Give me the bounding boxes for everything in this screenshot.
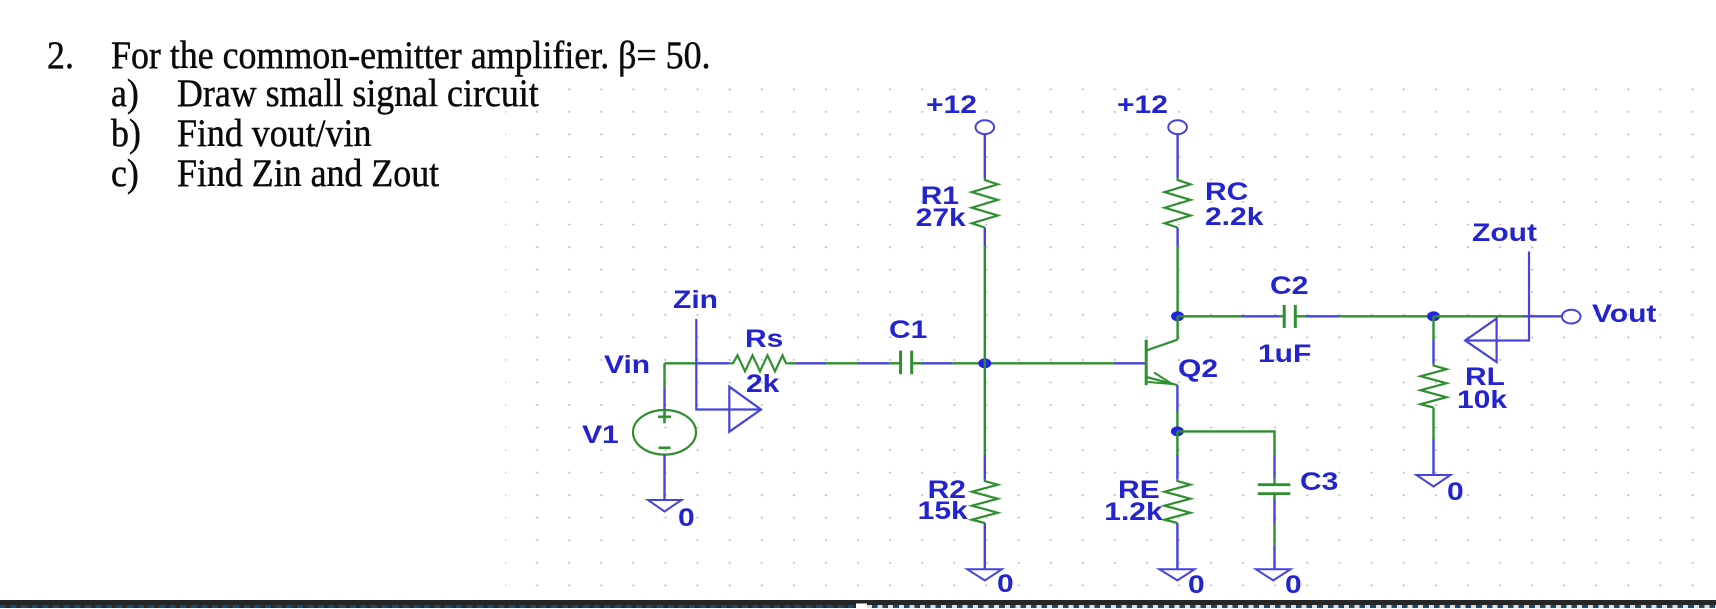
wire: C1 to base node xyxy=(912,362,1145,364)
wire: R2 to ground xyxy=(984,523,986,569)
ground below RL xyxy=(1417,475,1451,487)
question item c xyxy=(111,154,139,193)
value 1.2k xyxy=(1105,500,1163,525)
wire: V1 to ground xyxy=(663,455,665,500)
ground below C3 xyxy=(1256,569,1291,580)
ground below V1 xyxy=(648,500,682,512)
wire: Q2 emitter down to emitter node xyxy=(1176,385,1178,431)
label +12 (R1 supply) xyxy=(926,93,977,118)
resistor RC xyxy=(1165,178,1191,228)
label R1 xyxy=(921,184,959,209)
node junction dot collector xyxy=(1171,311,1184,321)
label Vin xyxy=(604,353,650,378)
node junction dot at C1/R1/R2 xyxy=(978,358,991,368)
resistor R1 xyxy=(972,178,998,228)
wire: R1 to node xyxy=(984,228,986,480)
label Zout xyxy=(1472,221,1537,246)
question text line 1 xyxy=(47,36,74,75)
probe arrow Zout xyxy=(1465,252,1529,363)
question item b text xyxy=(177,114,371,153)
ground below RE xyxy=(1159,569,1194,580)
label R2 xyxy=(928,478,966,503)
label Vout xyxy=(1592,302,1656,327)
wire: collector node down to Q2 collector xyxy=(1176,316,1178,339)
question item b xyxy=(111,114,141,153)
value 15k xyxy=(918,499,968,524)
wire: Vin node horizontal to Rs xyxy=(665,362,730,364)
question item a text xyxy=(177,74,539,113)
wire: +12 to R1 xyxy=(984,134,986,177)
node junction dot emitter xyxy=(1171,426,1184,436)
probe arrow Zin xyxy=(696,319,761,432)
video timeline dashes right xyxy=(867,605,1716,608)
wire: output node to Vout terminal xyxy=(1434,315,1562,317)
value 1uF xyxy=(1258,342,1311,367)
label RC xyxy=(1205,180,1248,205)
video progress bar xyxy=(0,600,1716,608)
capacitor C2 xyxy=(1280,305,1295,328)
value 27k xyxy=(916,206,966,231)
label RE xyxy=(1118,478,1160,503)
label C2 xyxy=(1270,274,1308,299)
label +12 (RC supply) xyxy=(1117,93,1168,118)
question item c text xyxy=(177,154,439,193)
voltage source V1 xyxy=(633,410,696,455)
grid dots background xyxy=(505,85,1716,600)
wire: C3 to ground xyxy=(1273,494,1275,570)
wire: RL to ground xyxy=(1432,408,1434,476)
question item a xyxy=(111,74,139,113)
wire: RE to ground xyxy=(1176,523,1178,569)
net 0 label (RE ground) xyxy=(1188,573,1205,598)
transistor Q2 xyxy=(1146,340,1177,385)
wire: emitter node to RE xyxy=(1176,431,1178,479)
terminal Vout circle xyxy=(1562,310,1581,324)
wire: +12 to RC xyxy=(1176,134,1178,177)
resistor RL xyxy=(1421,364,1447,408)
value 2k xyxy=(746,372,779,397)
wire: RC to collector node xyxy=(1176,228,1178,317)
label C1 xyxy=(889,318,927,343)
net 0 label (V1 ground) xyxy=(678,506,695,531)
label V1 xyxy=(582,423,619,448)
wire: emitter node to C3 xyxy=(1177,431,1274,484)
net 0 label (C3 ground) xyxy=(1285,573,1302,598)
node junction dot output xyxy=(1427,311,1440,321)
resistor R2 xyxy=(972,479,998,523)
power terminal +12 circle (RC) xyxy=(1168,120,1187,134)
resistor Rs xyxy=(729,355,789,371)
capacitor C3 xyxy=(1258,485,1291,494)
value 2.2k xyxy=(1205,205,1263,230)
label Rs xyxy=(745,327,783,352)
wire: output node to RL xyxy=(1432,316,1434,363)
playhead marker xyxy=(856,603,867,609)
label Zin xyxy=(673,288,718,313)
video timeline dashes left xyxy=(0,605,856,608)
question text line 1b xyxy=(111,36,710,75)
label RL xyxy=(1465,365,1505,390)
net 0 label (RL ground) xyxy=(1447,480,1464,505)
wire: C2 to output node xyxy=(1295,315,1428,317)
wire: Rs to C1 xyxy=(789,362,896,364)
net 0 label (R2 ground) xyxy=(997,572,1014,597)
ground below R2 xyxy=(967,569,1002,580)
label C3 xyxy=(1300,470,1338,495)
capacitor C1 xyxy=(896,351,912,375)
resistor RE xyxy=(1164,479,1190,523)
wire: collector node to C2 xyxy=(1178,315,1280,317)
value 10k xyxy=(1457,388,1507,413)
label Q2 xyxy=(1178,357,1218,382)
wire: Vin node down to V1 xyxy=(663,363,665,410)
power terminal +12 circle (R1) xyxy=(976,120,995,134)
